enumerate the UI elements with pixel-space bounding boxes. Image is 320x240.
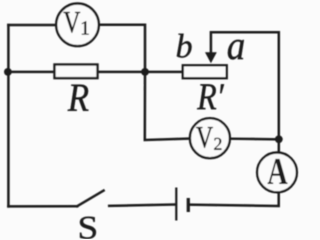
label subscript 2 of V2: [214, 138, 221, 150]
wire node J1 down then right to V2: [145, 72, 191, 140]
rheostat R' body: [183, 65, 227, 78]
label b: [177, 34, 192, 58]
wire battery left plate to switch: [109, 205, 174, 206]
rheostat slider arrowhead: [205, 52, 217, 63]
battery long thin plate: [175, 188, 177, 221]
wire V2 right to node J2: [230, 137, 279, 140]
resistor R body: [55, 65, 98, 79]
wire V1 right to corner then down to node J1: [99, 25, 145, 72]
label V of voltmeter V1: [63, 12, 80, 33]
label R′: [197, 84, 224, 109]
wire R right to node J1: [98, 71, 146, 74]
battery short thick plate: [187, 198, 190, 212]
node J1 junction dot: [141, 68, 149, 76]
wire R row left edge to R: [8, 71, 54, 74]
voltmeter V1 circle: [56, 4, 99, 47]
label subscript 1 of V1: [82, 21, 89, 34]
switch blade: [77, 191, 103, 207]
label S: [80, 217, 96, 239]
wire node J2 down to ammeter A: [278, 139, 281, 153]
label V of voltmeter V2: [196, 127, 213, 148]
node J2 junction dot: [275, 135, 283, 143]
wire bottom left corner to switch pivot: [8, 205, 77, 208]
label R: [68, 85, 89, 111]
node junction dot left edge / R row: [4, 68, 12, 76]
wire top left to V1: [8, 24, 56, 27]
wire slider tap up across and down right edge to node J2: [211, 32, 279, 139]
label a: [228, 40, 244, 60]
wire left vertical: [7, 25, 10, 206]
voltmeter V2 circle: [190, 118, 230, 158]
wire node J1 to rheostat R' left: [145, 71, 183, 74]
label A of ammeter: [267, 159, 287, 184]
ammeter A circle: [257, 153, 297, 193]
wire A bottom down then left to battery: [188, 192, 278, 207]
